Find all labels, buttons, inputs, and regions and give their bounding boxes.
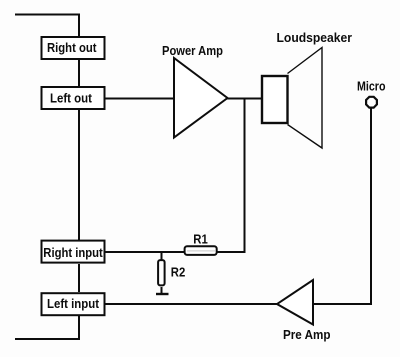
- wire Power Amp output to Loudspeaker: [226, 98, 263, 100]
- box Left out: [42, 87, 105, 109]
- svg-text:Power Amp: Power Amp: [162, 44, 223, 58]
- svg-text:Left input: Left input: [47, 297, 100, 311]
- wire Left input bottom to left edge: [15, 316, 79, 339]
- wire feedback node down to R1: [244, 99, 246, 254]
- wire Pre Amp output to Left input: [105, 303, 278, 305]
- svg-text:Right input: Right input: [43, 246, 103, 260]
- svg-text:Micro: Micro: [357, 80, 386, 94]
- box Right out: [42, 37, 105, 59]
- wire R1 to feedback node: [218, 251, 246, 253]
- box Left input: [42, 293, 105, 315]
- svg-text:Right out: Right out: [47, 41, 97, 55]
- wire Micro down to Pre Amp input: [313, 109, 371, 305]
- svg-text:R2: R2: [171, 265, 186, 279]
- loudspeaker: [262, 31, 352, 148]
- svg-text:Loudspeaker: Loudspeaker: [277, 31, 353, 45]
- resistor R2: [158, 252, 185, 294]
- resistor R1: [185, 232, 217, 255]
- microphone Micro: [357, 80, 386, 108]
- wire Left out to Power Amp input: [105, 98, 175, 100]
- box Right input: [42, 241, 105, 263]
- ground tick under R2: [156, 293, 169, 295]
- op-amp Power Amp: [162, 44, 228, 137]
- wire Right input to Left input: [78, 264, 80, 292]
- svg-text:R1: R1: [193, 232, 208, 246]
- wire Right input to R1: [105, 251, 184, 253]
- wire Right out to Left out: [78, 60, 80, 86]
- op-amp Pre Amp: [277, 280, 331, 342]
- svg-text:Pre Amp: Pre Amp: [283, 328, 331, 342]
- svg-text:Left out: Left out: [50, 92, 93, 106]
- wire Left out to Right input: [78, 110, 80, 240]
- wire top-left to Right out: [15, 15, 79, 38]
